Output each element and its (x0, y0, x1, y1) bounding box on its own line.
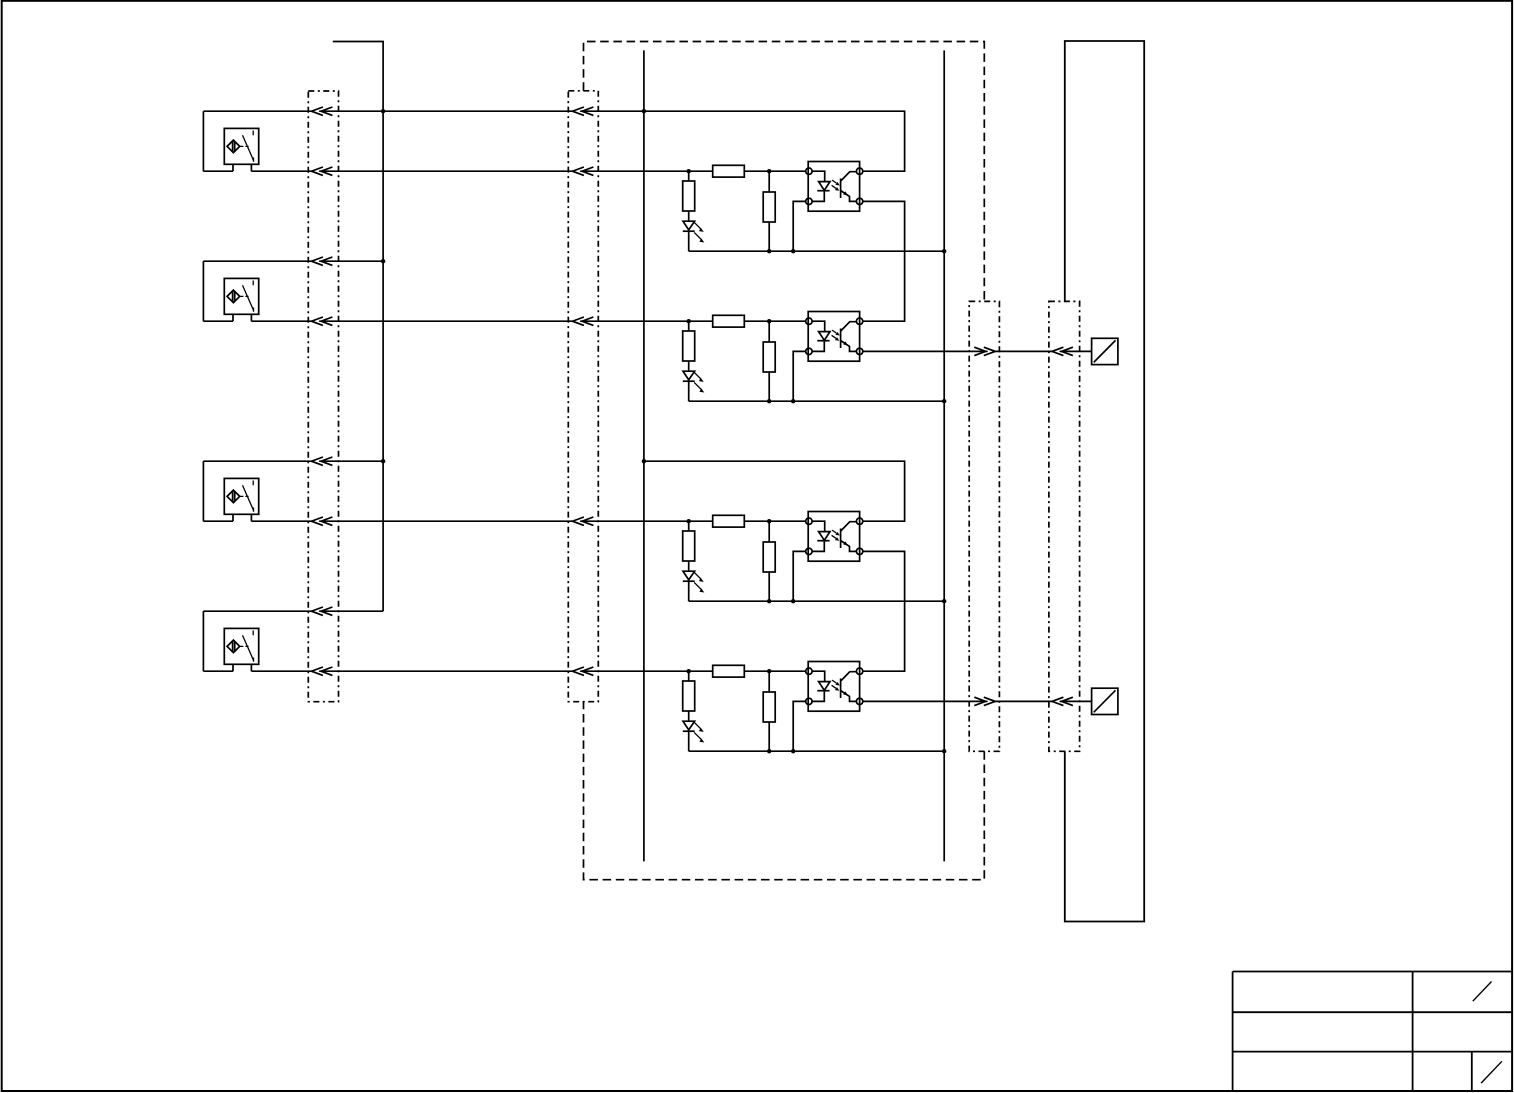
resistor R13 (parallel) (763, 171, 775, 251)
wire: sensor B2 internal supply drop (left vertical) (202, 261, 204, 321)
wire: supply branch to sensor B4 (203, 610, 383, 612)
junction node circuit 3 rail / R33 (767, 599, 771, 603)
plug contact arrows on X1 at y=521.2 (312, 517, 333, 525)
junction node circuit 3 input / R32 (687, 519, 691, 523)
plug contact arrows on X3 at y=701.4 (974, 697, 995, 705)
plug contact arrows on X1 at y=671.2 (312, 667, 333, 675)
optocoupler U4 (806, 662, 863, 712)
resistor R41 (series input) (713, 665, 745, 677)
terminal strip X1 (sensor side, dash-dot box) (308, 91, 338, 702)
proximity sensor B3 (224, 478, 258, 521)
PLC input point square IN1 (1092, 338, 1118, 364)
junction node supply bus / B1 supply (381, 109, 385, 113)
resistor R12 (LED branch) (683, 171, 695, 221)
wire: +V supply net to sensor B1 and optocoupler U1 collector (203, 111, 904, 171)
wire: sensor B1 signal output (bottom) (203, 170, 805, 172)
junction node circuit 3 rail / U3 return (791, 599, 795, 603)
resistor R11 (series input) (713, 165, 745, 177)
plug contact arrows on X1 at y=261.2 (312, 257, 333, 265)
junction node circuit 2 rail / return bus (942, 399, 946, 403)
resistor R21 (series input) (713, 315, 745, 327)
junction node circuit 3 rail / return bus (942, 599, 946, 603)
junction node circuit 2 input / R22 (687, 319, 691, 323)
junction node circuit 1 input / R13 (767, 169, 771, 173)
plug contact arrows on X2 at y=521.2 (573, 517, 594, 525)
junction node circuit 1 rail / U1 return (791, 249, 795, 253)
terminal strip X2 (module input side, dash-dot box) (568, 91, 598, 702)
LED V4 (input indicator) (683, 721, 705, 751)
plug contact arrows on X3 at y=351.4 (974, 347, 995, 355)
plug contact arrows on X4 at y=351.4 (1052, 347, 1073, 355)
wire: circuit 4 0V rail (689, 750, 945, 752)
wire: sensor B4 internal supply drop (left vertical) (202, 611, 204, 671)
plug contact arrows on X1 at y=611.2 (312, 607, 333, 615)
junction node supply bus / B2 supply (381, 259, 385, 263)
plug contact arrows on X1 at y=461.2 (312, 457, 333, 465)
wire: circuit 2 0V rail (689, 400, 945, 402)
junction node supply bus / B3 supply (381, 459, 385, 463)
resistor R33 (parallel) (763, 521, 775, 601)
junction node circuit 4 rail / R43 (767, 749, 771, 753)
wire: module internal supply bus (left vertical) (643, 50, 645, 861)
wire: sensor B3 internal supply drop (left vertical) (202, 461, 204, 521)
wire: U1 emitter to U2 collector chain (863, 201, 905, 321)
terminal strip X3 (module output side, dash-dot box) (969, 301, 999, 751)
PLC input point square IN2 (1092, 688, 1118, 714)
junction node module bus / input 1 supply (642, 109, 646, 113)
optocoupler U3 (806, 512, 863, 562)
proximity sensor B1 (224, 128, 258, 171)
resistor R32 (LED branch) (683, 521, 695, 571)
resistor R31 (series input) (713, 515, 745, 527)
plug contact arrows on X2 at y=111.2 (573, 107, 594, 115)
title block (1233, 972, 1512, 1092)
junction node circuit 4 input / R43 (767, 669, 771, 673)
junction node circuit 4 input / R42 (687, 669, 691, 673)
wire: U3 photodiode cathode return (793, 551, 806, 601)
junction node circuit 1 rail / R13 (767, 249, 771, 253)
junction node circuit 4 rail / return bus (942, 749, 946, 753)
junction node circuit 2 input / R23 (767, 319, 771, 323)
wire: circuit 3 0V rail (689, 600, 945, 602)
input module A1 boundary (dashed box) (584, 42, 985, 880)
wire: circuit 1 0V rail (689, 250, 945, 252)
plug contact arrows on X4 at y=701.4 (1052, 697, 1073, 705)
wire: output signal 2 from U4 emitter to PLC input IN2 (863, 700, 1092, 702)
junction node module bus / pair B supply (642, 459, 646, 463)
junction node circuit 3 input / R33 (767, 519, 771, 523)
proximity sensor B4 (224, 628, 258, 671)
wire: module internal return bus (right vertical) (943, 50, 945, 861)
wire: U3 emitter to U4 collector chain (863, 551, 905, 671)
resistor R22 (LED branch) (683, 321, 695, 371)
junction node circuit 1 rail / return bus (942, 249, 946, 253)
junction node circuit 2 rail / R23 (767, 399, 771, 403)
wire: supply to optocoupler U3 collector (644, 461, 905, 521)
wire: sensor B2 signal output (bottom) (203, 320, 805, 322)
wire: sensor B3 signal output (bottom) (203, 520, 805, 522)
terminal strip X4 (PLC side, dash-dot box) (1049, 301, 1080, 751)
wire: sensor B1 internal supply drop (left vertical) (202, 111, 204, 171)
resistor R23 (parallel) (763, 321, 775, 401)
wire: U4 photodiode cathode return (793, 701, 806, 751)
plug contact arrows on X1 at y=111.2 (312, 107, 333, 115)
wire: sensor B4 signal output (bottom) (203, 670, 805, 672)
resistor R43 (parallel) (763, 671, 775, 751)
plug contact arrows on X1 at y=171.2 (312, 167, 333, 175)
LED V1 (input indicator) (683, 221, 705, 251)
resistor R42 (LED branch) (683, 671, 695, 721)
LED V2 (input indicator) (683, 371, 705, 401)
wire: output signal 1 from U2 emitter to PLC input IN1 (863, 350, 1092, 352)
plug contact arrows on X2 at y=171.2 (573, 167, 594, 175)
wire: U1 photodiode cathode return (793, 201, 806, 251)
wire: supply branch to sensor B3 (203, 460, 383, 462)
optocoupler U1 (806, 162, 863, 212)
plug contact arrows on X2 at y=671.2 (573, 667, 594, 675)
junction node circuit 2 rail / U2 return (791, 399, 795, 403)
PLC I/O card A2 boundary (solid box) (1065, 41, 1144, 922)
wire: supply branch to sensor B2 (203, 260, 383, 262)
optocoupler U2 (806, 312, 863, 362)
proximity sensor B2 (224, 278, 258, 321)
plug contact arrows on X2 at y=321.2 (573, 317, 594, 325)
junction node circuit 4 rail / U4 return (791, 749, 795, 753)
wire: U2 photodiode cathode return (793, 351, 806, 401)
LED V3 (input indicator) (683, 571, 705, 601)
wire: sensor supply bus vertical with top stub (333, 42, 383, 612)
junction node circuit 1 input / R12 (687, 169, 691, 173)
plug contact arrows on X1 at y=321.2 (312, 317, 333, 325)
